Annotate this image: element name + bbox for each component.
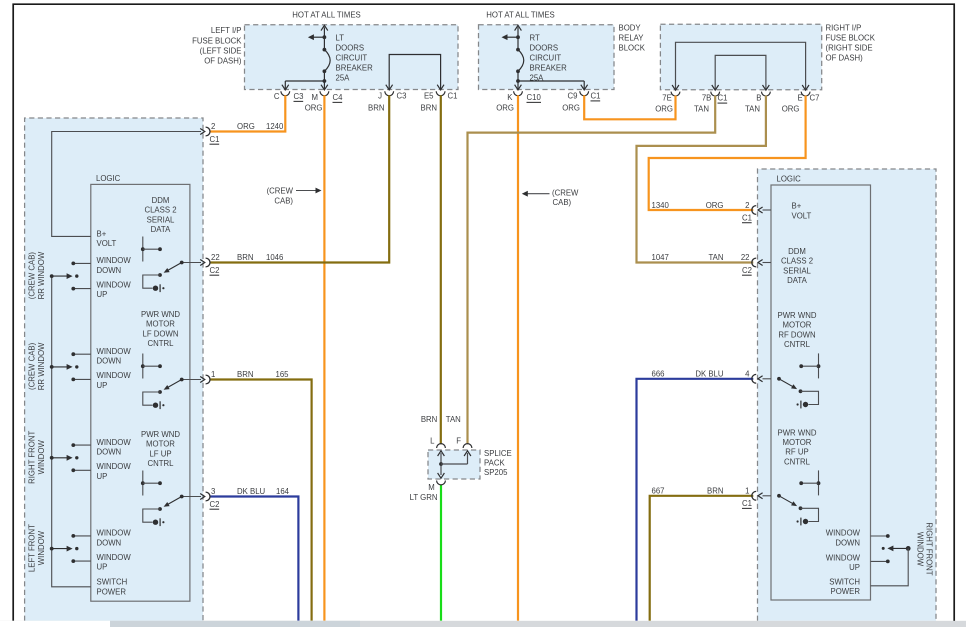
svg-text:TAN: TAN	[446, 415, 461, 424]
svg-text:UP: UP	[97, 563, 108, 572]
svg-text:1046: 1046	[266, 253, 283, 262]
scrollbar strip	[0, 621, 966, 627]
svg-text:RR WINDOW: RR WINDOW	[37, 251, 46, 299]
wire ORG: pin K down (crew cab feed right)	[517, 95, 519, 621]
pin E5 / C1	[436, 91, 445, 95]
svg-text:WINDOW: WINDOW	[97, 553, 132, 562]
svg-text:BREAKER: BREAKER	[530, 64, 568, 73]
svg-text:CLASS 2: CLASS 2	[781, 257, 813, 266]
svg-text:HOT AT ALL TIMES: HOT AT ALL TIMES	[486, 11, 554, 20]
svg-text:ORG: ORG	[706, 201, 724, 210]
svg-text:(CREW: (CREW	[267, 187, 294, 196]
wire BRN: left DDM pin 1 down (ckt 165)	[210, 380, 312, 621]
svg-text:BRN: BRN	[421, 415, 437, 424]
svg-text:LOGIC: LOGIC	[96, 174, 121, 183]
window switch group (right): RIGHT FRONT WINDOW	[871, 535, 888, 537]
svg-text:CIRCUIT: CIRCUIT	[336, 54, 368, 63]
pin 7B / C1	[711, 92, 720, 96]
svg-text:(CREW: (CREW	[552, 188, 579, 197]
circuit breaker at x=324.4	[321, 25, 328, 30]
svg-text:DOWN: DOWN	[97, 266, 122, 275]
svg-text:MOTOR: MOTOR	[146, 440, 175, 449]
output driver: RF DOWN (right pin 4)	[818, 353, 820, 378]
svg-text:HOT AT ALL TIMES: HOT AT ALL TIMES	[292, 11, 360, 20]
splice pin L	[437, 444, 446, 448]
svg-text:WINDOW: WINDOW	[916, 532, 925, 567]
svg-text:K: K	[507, 93, 513, 102]
svg-text:DOORS: DOORS	[530, 43, 559, 52]
wire DK BLU: right DDM pin 4 down (ckt 666)	[637, 379, 754, 621]
left DDM pin 3 / C2	[182, 496, 201, 498]
svg-text:LEFT I/P: LEFT I/P	[211, 26, 242, 35]
svg-text:7B: 7B	[702, 94, 712, 103]
svg-text:UP: UP	[97, 472, 108, 481]
wire: breaker branch to pin C	[285, 80, 324, 82]
svg-text:(CREW CAB): (CREW CAB)	[28, 252, 37, 300]
svg-text:SWITCH: SWITCH	[829, 577, 860, 586]
svg-text:BREAKER: BREAKER	[336, 64, 374, 73]
svg-text:C9: C9	[568, 92, 578, 101]
svg-text:WINDOW: WINDOW	[97, 371, 132, 380]
svg-text:RF UP: RF UP	[785, 448, 808, 457]
svg-text:M: M	[428, 483, 435, 492]
svg-text:C1: C1	[591, 92, 601, 101]
svg-text:CLASS 2: CLASS 2	[144, 206, 176, 215]
right I/P fuse block	[660, 24, 821, 90]
svg-text:UP: UP	[97, 290, 108, 299]
svg-text:C7: C7	[810, 94, 820, 103]
svg-text:TAN: TAN	[745, 105, 760, 114]
svg-text:C10: C10	[527, 93, 542, 102]
svg-text:CNTRL: CNTRL	[784, 340, 811, 349]
splice pin F	[463, 444, 472, 448]
splice internal wires	[438, 451, 445, 456]
wire: inner bus 7B-B	[715, 55, 766, 89]
pin K / C10	[514, 91, 523, 95]
svg-text:165: 165	[276, 370, 290, 379]
svg-text:1240: 1240	[266, 122, 284, 131]
svg-text:TAN: TAN	[708, 253, 723, 262]
svg-text:C1: C1	[718, 94, 728, 103]
svg-text:2: 2	[211, 122, 215, 131]
svg-text:C1: C1	[742, 213, 752, 222]
svg-text:FUSE BLOCK: FUSE BLOCK	[826, 34, 876, 43]
svg-text:LF UP: LF UP	[149, 449, 171, 458]
left DDM pin 1	[182, 379, 201, 381]
svg-text:BRN: BRN	[237, 370, 253, 379]
svg-text:BLOCK: BLOCK	[619, 44, 646, 53]
wire ORG: pin M down (crew cab feed)	[323, 95, 325, 621]
svg-text:(RIGHT SIDE: (RIGHT SIDE	[826, 44, 873, 53]
wire BRN: right DDM pin 1 down (ckt 667)	[650, 496, 754, 621]
svg-text:4: 4	[745, 370, 750, 379]
svg-text:LOGIC: LOGIC	[777, 175, 802, 184]
svg-text:WINDOW: WINDOW	[97, 462, 132, 471]
svg-text:PACK: PACK	[484, 459, 505, 468]
svg-text:MOTOR: MOTOR	[783, 438, 812, 447]
pin C9 / C1	[580, 91, 589, 95]
wire ORG: pin C to left DDM pin 2 (ckt 1240)	[210, 95, 286, 131]
svg-text:OF DASH): OF DASH)	[204, 57, 242, 66]
pin B	[762, 92, 771, 96]
svg-text:POWER: POWER	[831, 587, 861, 596]
pin E / C7	[801, 92, 810, 96]
svg-text:ORG: ORG	[655, 105, 673, 114]
svg-text:WINDOW: WINDOW	[97, 280, 132, 289]
svg-text:PWR WND: PWR WND	[778, 428, 817, 437]
svg-text:BRN: BRN	[368, 104, 384, 113]
svg-text:DOWN: DOWN	[97, 357, 122, 366]
wire BRN: pin J to left DDM pin 22 (ckt 1046)	[210, 95, 390, 262]
svg-text:F: F	[456, 437, 461, 446]
svg-text:WINDOW: WINDOW	[826, 553, 861, 562]
svg-text:1: 1	[745, 487, 749, 496]
svg-text:WINDOW: WINDOW	[97, 438, 132, 447]
svg-text:LEFT FRONT: LEFT FRONT	[28, 524, 37, 572]
window switch group 3 (left): RIGHT FRONT WINDOW	[73, 444, 91, 446]
svg-text:C2: C2	[742, 266, 752, 275]
svg-text:RIGHT FRONT: RIGHT FRONT	[925, 522, 934, 575]
svg-text:CNTRL: CNTRL	[148, 459, 175, 468]
svg-text:FUSE BLOCK: FUSE BLOCK	[192, 36, 242, 45]
svg-text:DATA: DATA	[151, 225, 171, 234]
svg-text:RELAY: RELAY	[619, 34, 645, 43]
body relay block	[479, 25, 615, 90]
splice pin M	[437, 481, 446, 485]
splice pack SP205	[428, 450, 480, 479]
svg-text:ORG: ORG	[305, 104, 323, 113]
wire ORG: pin E to right DDM pin 2 (ckt 1340)	[649, 96, 806, 211]
pin M / C4	[320, 91, 329, 95]
svg-text:CAB): CAB)	[274, 196, 293, 205]
svg-text:E: E	[797, 94, 802, 103]
svg-text:WINDOW: WINDOW	[37, 530, 46, 565]
wire TAN: pin 7B to splice F	[468, 96, 716, 445]
svg-text:DOORS: DOORS	[336, 43, 365, 52]
svg-text:B: B	[756, 94, 761, 103]
svg-text:POWER: POWER	[97, 587, 127, 596]
pin J / C3	[385, 91, 394, 95]
svg-text:RT: RT	[530, 33, 540, 42]
svg-text:UP: UP	[97, 381, 108, 390]
svg-text:CIRCUIT: CIRCUIT	[530, 54, 562, 63]
wire: inner bus 7E-E	[676, 42, 806, 89]
svg-text:DOWN: DOWN	[97, 448, 122, 457]
svg-text:J: J	[378, 92, 382, 101]
svg-text:BRN: BRN	[237, 253, 253, 262]
svg-text:PWR WND: PWR WND	[141, 430, 180, 439]
svg-text:C2: C2	[210, 500, 220, 509]
svg-text:3: 3	[211, 487, 215, 496]
svg-text:22: 22	[741, 253, 750, 262]
svg-text:M: M	[312, 93, 319, 102]
svg-text:LT: LT	[336, 33, 345, 42]
svg-text:1340: 1340	[652, 201, 670, 210]
wire: switch power bus (left)	[52, 276, 91, 587]
right DDM pin 1 / C1	[763, 495, 772, 497]
wire ORG: pin C9 to pin 7E	[584, 95, 675, 119]
wire LT GRN: splice M down	[440, 485, 442, 621]
wire TAN: pin B to right DDM pin 22 (ckt 1047)	[637, 96, 766, 263]
svg-text:C1: C1	[210, 135, 220, 144]
left DDM outer dashed box	[25, 118, 203, 621]
svg-text:C: C	[274, 92, 280, 101]
svg-text:2: 2	[745, 201, 749, 210]
svg-text:(CREW CAB): (CREW CAB)	[28, 342, 37, 390]
svg-text:B+: B+	[792, 202, 802, 211]
svg-text:WINDOW: WINDOW	[37, 440, 46, 475]
svg-text:25A: 25A	[336, 74, 351, 83]
svg-text:RIGHT FRONT: RIGHT FRONT	[28, 431, 37, 484]
svg-text:DK BLU: DK BLU	[237, 487, 266, 496]
output driver: LF DOWN (left pin 1)	[142, 354, 144, 379]
svg-text:PWR WND: PWR WND	[141, 310, 180, 319]
pin 7E	[671, 92, 680, 96]
svg-text:DK BLU: DK BLU	[695, 370, 724, 379]
right DDM LOGIC box	[771, 185, 871, 600]
svg-text:VOLT: VOLT	[792, 212, 812, 221]
svg-text:VOLT: VOLT	[97, 239, 117, 248]
svg-text:(LEFT SIDE: (LEFT SIDE	[200, 46, 242, 55]
right DDM pin 4	[763, 378, 772, 380]
right DDM pin 2 / C1	[763, 209, 772, 211]
svg-text:1047: 1047	[652, 253, 669, 262]
window switch group 4 (left): LEFT FRONT WINDOW	[73, 535, 91, 537]
svg-text:DOWN: DOWN	[97, 538, 122, 547]
svg-text:ORG: ORG	[782, 105, 800, 114]
right DDM pin 22 / C2	[763, 262, 772, 264]
svg-text:MOTOR: MOTOR	[783, 321, 812, 330]
svg-text:C4: C4	[333, 93, 344, 102]
svg-text:CNTRL: CNTRL	[148, 339, 175, 348]
svg-text:RF DOWN: RF DOWN	[778, 330, 815, 339]
svg-text:WINDOW: WINDOW	[97, 256, 132, 265]
wire: breaker branch to pin C9	[518, 80, 584, 82]
svg-text:CNTRL: CNTRL	[784, 457, 811, 466]
svg-text:ORG: ORG	[562, 104, 580, 113]
svg-text:L: L	[430, 437, 435, 446]
svg-text:WINDOW: WINDOW	[97, 347, 132, 356]
svg-text:164: 164	[276, 487, 290, 496]
output driver: RF UP (right pin 1)	[818, 470, 820, 495]
window switch group 1 (left): (CREW CAB) RR WINDOW	[73, 262, 91, 264]
left DDM pin 2 / C1	[182, 131, 201, 133]
svg-text:SP205: SP205	[484, 468, 508, 477]
circuit breaker at x=518.0	[515, 25, 522, 30]
left DDM LOGIC box	[91, 184, 190, 601]
svg-text:C2: C2	[210, 266, 220, 275]
svg-text:BODY: BODY	[619, 23, 642, 32]
svg-text:B+: B+	[97, 229, 107, 238]
svg-text:LF DOWN: LF DOWN	[143, 329, 179, 338]
wire DK BLU: left DDM pin 3 down (ckt 164)	[210, 497, 299, 621]
svg-text:DATA: DATA	[787, 276, 807, 285]
svg-text:WINDOW: WINDOW	[826, 529, 861, 538]
svg-text:C1: C1	[448, 92, 458, 101]
svg-text:MOTOR: MOTOR	[146, 320, 175, 329]
svg-text:BRN: BRN	[707, 487, 723, 496]
svg-text:PWR WND: PWR WND	[778, 311, 817, 320]
right DDM outer dashed box	[758, 169, 937, 621]
svg-text:WINDOW: WINDOW	[97, 529, 132, 538]
svg-text:1: 1	[211, 370, 215, 379]
left I/P fuse block	[245, 25, 459, 90]
svg-text:C3: C3	[397, 92, 407, 101]
svg-text:SERIAL: SERIAL	[147, 215, 175, 224]
svg-text:SWITCH: SWITCH	[97, 578, 128, 587]
wire: switch power (right)	[871, 548, 909, 585]
svg-text:LT GRN: LT GRN	[410, 493, 438, 502]
svg-text:DOWN: DOWN	[835, 538, 860, 547]
svg-text:667: 667	[652, 487, 665, 496]
svg-text:ORG: ORG	[237, 122, 255, 131]
wire: pin 2 to B+ VOLT	[52, 132, 201, 237]
output driver: LF UP (left pin 3)	[142, 471, 144, 496]
svg-text:22: 22	[211, 253, 220, 262]
svg-text:TAN: TAN	[694, 105, 709, 114]
svg-text:C3: C3	[294, 92, 304, 101]
svg-text:666: 666	[652, 370, 665, 379]
svg-text:RR WINDOW: RR WINDOW	[37, 342, 46, 390]
svg-text:E5: E5	[424, 92, 434, 101]
svg-text:C1: C1	[742, 499, 752, 508]
svg-text:SERIAL: SERIAL	[783, 266, 811, 275]
output driver: DDM class2 serial data switch (left)	[142, 237, 144, 262]
svg-text:DDM: DDM	[152, 196, 170, 205]
svg-text:CAB): CAB)	[553, 198, 572, 207]
wire BRN: pin E5 to splice L	[440, 95, 442, 444]
svg-text:DDM: DDM	[788, 247, 806, 256]
svg-text:ORG: ORG	[496, 104, 514, 113]
pin C / C3	[281, 91, 290, 95]
svg-text:UP: UP	[849, 563, 860, 572]
svg-text:7E: 7E	[662, 94, 672, 103]
left DDM pin 22 / C2	[182, 262, 201, 264]
window switch group 2 (left): (CREW CAB) RR WINDOW	[73, 353, 91, 355]
svg-text:SPLICE: SPLICE	[484, 449, 512, 458]
svg-text:RIGHT I/P: RIGHT I/P	[826, 23, 862, 32]
wire: bracket pin J to pin E5	[389, 55, 440, 90]
svg-text:OF DASH): OF DASH)	[826, 54, 864, 63]
svg-text:BRN: BRN	[421, 104, 437, 113]
